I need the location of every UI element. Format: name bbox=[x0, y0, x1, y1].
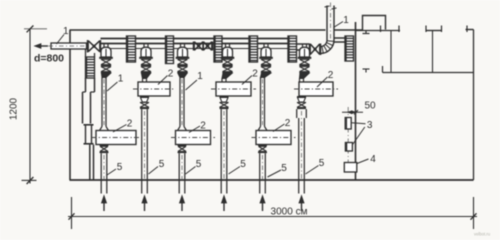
flexible insert riser 5 bbox=[261, 59, 271, 73]
outlet cone unit 6 bbox=[297, 96, 306, 109]
chamber roof line bbox=[70, 29, 363, 31]
roof notch (raised parapet) bbox=[363, 16, 386, 31]
drop grille 4 bbox=[249, 36, 258, 62]
label 1 stack bbox=[343, 15, 349, 26]
svg-text:2: 2 bbox=[285, 118, 291, 129]
funnel riser 4 bbox=[222, 73, 232, 82]
watermark bbox=[474, 232, 491, 237]
svg-text:5: 5 bbox=[159, 159, 165, 170]
dim 3000 line bbox=[68, 213, 477, 219]
leader label 4 bbox=[357, 159, 369, 164]
svg-text:2: 2 bbox=[200, 121, 206, 132]
dim text 3000 cm bbox=[271, 207, 308, 218]
fan unit 5 bbox=[252, 131, 296, 145]
svg-text:2: 2 bbox=[328, 70, 334, 81]
column line 1 bbox=[390, 31, 392, 73]
flexible insert riser 4 bbox=[222, 59, 232, 73]
svg-text:5: 5 bbox=[281, 163, 287, 174]
funnel riser 1 bbox=[102, 73, 111, 77]
label 1 riser 3 bbox=[197, 71, 203, 82]
svg-text:2: 2 bbox=[252, 69, 258, 80]
wall duct outlet stub bbox=[84, 124, 94, 145]
label d=800 bbox=[34, 53, 64, 65]
deflector dome riser 3 bbox=[176, 44, 190, 59]
riser pipe 3 lower bbox=[179, 153, 185, 193]
label 5 riser 2 bbox=[159, 159, 165, 170]
wall drop duct hatched section bbox=[86, 49, 95, 78]
outlet flange unit 3 bbox=[178, 145, 187, 154]
flexible insert riser 2 bbox=[141, 59, 151, 73]
dim 3000 extension left bbox=[71, 197, 73, 229]
label 2 unit4 bbox=[252, 69, 258, 80]
fan unit 6 bbox=[294, 82, 338, 96]
dim 1200 line bbox=[22, 26, 48, 185]
supply arrow riser 1 bbox=[101, 196, 106, 212]
label 2 unit1 bbox=[127, 119, 133, 130]
label 2 unit6 bbox=[328, 70, 334, 81]
svg-text:4: 4 bbox=[370, 154, 376, 165]
label 5 riser 1 bbox=[117, 162, 123, 173]
svg-text:3000 см: 3000 см bbox=[271, 207, 308, 218]
beam mark 2 on roof bbox=[426, 26, 442, 33]
leader label 5 riser 2 bbox=[149, 167, 159, 175]
inlet flow arrow bbox=[35, 44, 49, 49]
hatched elbow bend bbox=[321, 40, 335, 54]
inlet gate valve bbox=[88, 40, 101, 53]
funnel riser 2 bbox=[142, 73, 151, 82]
funnel riser 3 bbox=[178, 73, 187, 77]
wall duct lower column to floor bbox=[90, 145, 94, 180]
funnel riser 5 bbox=[261, 73, 271, 77]
riser pipe 5 lower bbox=[260, 153, 266, 193]
svg-text:50: 50 bbox=[364, 101, 376, 112]
inlet cone unit 5 bbox=[258, 127, 267, 131]
axis line fixtures bbox=[347, 107, 349, 163]
label 5 riser 4 bbox=[240, 159, 246, 170]
column tick under notch bbox=[363, 31, 370, 34]
riser pipe 1 upper bbox=[102, 78, 106, 127]
riser pipe 3 upper bbox=[180, 78, 184, 127]
wall drop duct lower section bbox=[83, 78, 95, 124]
beam mark 1 on roof bbox=[381, 26, 400, 33]
drop grille 2 bbox=[166, 36, 174, 64]
label 1 riser 1 bbox=[118, 74, 124, 85]
mid double gate valve bbox=[194, 42, 213, 51]
svg-text:3: 3 bbox=[367, 120, 373, 131]
outlet cone unit 4 bbox=[220, 96, 229, 109]
svg-text:5: 5 bbox=[319, 158, 325, 169]
label 2 unit5 bbox=[285, 118, 291, 129]
svg-text:5: 5 bbox=[196, 159, 202, 170]
leader to label 1 (riser 1) bbox=[107, 82, 118, 91]
label 2 unit3 bbox=[200, 121, 206, 132]
chamber outline left wall bbox=[69, 30, 71, 180]
svg-text:1: 1 bbox=[343, 15, 349, 26]
deflector dome riser 6 bbox=[298, 44, 312, 59]
leader label 2 unit2 bbox=[158, 76, 168, 85]
fan unit 2 bbox=[133, 82, 175, 96]
supply arrow riser 4 bbox=[221, 196, 226, 212]
dim 3000 extension right bbox=[473, 197, 475, 229]
deflector dome riser 4 bbox=[221, 44, 235, 59]
deflector dome riser 2 bbox=[139, 44, 153, 59]
svg-text:2: 2 bbox=[127, 119, 133, 130]
end drop grille at partition bbox=[345, 36, 354, 61]
svg-text:5: 5 bbox=[240, 159, 246, 170]
supply arrow riser 3 bbox=[179, 196, 184, 212]
riser pipe 1 lower bbox=[101, 153, 107, 193]
label 5 riser 6 bbox=[319, 158, 325, 169]
svg-text:5: 5 bbox=[117, 162, 123, 173]
leader label 2 unit4 bbox=[242, 76, 252, 85]
supply arrow riser 2 bbox=[142, 196, 147, 212]
label 1 inlet bbox=[63, 26, 69, 37]
dim text 50 bbox=[364, 101, 376, 112]
svg-text:1200: 1200 bbox=[9, 97, 20, 120]
leader label 2 unit6 bbox=[317, 77, 328, 87]
riser pipe 6 lower bbox=[297, 109, 307, 193]
header duct lower flange line bbox=[101, 48, 296, 50]
fan unit 4 bbox=[211, 82, 256, 96]
supply arrow riser 6 bbox=[299, 196, 304, 212]
svg-text:1: 1 bbox=[63, 26, 69, 37]
flexible insert riser 6 bbox=[299, 59, 309, 73]
leader label 5 riser 1 bbox=[107, 169, 116, 175]
drop grille 5 bbox=[288, 36, 297, 62]
dim 50 line bbox=[342, 110, 363, 114]
corridor inner wall line bbox=[383, 66, 474, 73]
svg-text:d=800: d=800 bbox=[34, 53, 64, 65]
funnel riser 6 bbox=[300, 73, 310, 82]
fixture 3 lower bbox=[345, 143, 352, 152]
leader label 2 unit3 bbox=[189, 126, 200, 133]
header duct end run (lower level) bbox=[296, 44, 310, 50]
label 4 bbox=[370, 154, 376, 165]
corner tick right bbox=[466, 26, 474, 33]
leader to label 1 (riser 3) bbox=[186, 80, 198, 90]
riser pipe 5 upper bbox=[261, 78, 265, 127]
exhaust stack bbox=[325, 3, 337, 42]
inlet cone unit 3 bbox=[178, 127, 187, 131]
svg-text:velbot.ru: velbot.ru bbox=[474, 232, 491, 237]
label 2 unit2 bbox=[168, 69, 174, 80]
column line 2 bbox=[432, 31, 434, 73]
label 3 bbox=[367, 120, 373, 131]
outlet gate valve bbox=[310, 44, 321, 56]
fixture 3 upper bbox=[345, 118, 351, 130]
floor line bbox=[70, 179, 474, 181]
fixture 4 bbox=[344, 163, 357, 173]
inlet duct d=800 bbox=[49, 43, 89, 49]
leader to label 1 (inlet duct) bbox=[57, 35, 65, 45]
outlet flange unit 5 bbox=[258, 145, 267, 154]
leader label 2 unit1 bbox=[113, 125, 127, 133]
label 5 riser 5 bbox=[281, 163, 287, 174]
flexible insert riser 3 bbox=[177, 59, 187, 73]
drop grille 3 bbox=[214, 36, 222, 62]
deflector dome riser 1 bbox=[99, 44, 113, 59]
outlet flange unit 1 bbox=[100, 145, 109, 154]
header duct upper run bbox=[101, 39, 297, 44]
leader label 5 riser 4 bbox=[229, 167, 241, 175]
leader label 2 unit5 bbox=[273, 124, 285, 132]
duct stub to end grille bbox=[334, 38, 354, 42]
lower column tick bbox=[363, 69, 370, 73]
right outer wall bbox=[473, 30, 475, 181]
svg-text:2: 2 bbox=[168, 69, 174, 80]
supply arrow riser 5 bbox=[260, 196, 265, 212]
leader label 5 riser 5 bbox=[268, 170, 282, 177]
roof bar at partition top bbox=[355, 30, 400, 32]
leader label 5 riser 6 bbox=[306, 166, 319, 175]
svg-text:1: 1 bbox=[197, 71, 203, 82]
riser pipe 4 lower bbox=[221, 109, 227, 193]
inlet cone unit 1 bbox=[100, 127, 109, 131]
label 5 riser 3 bbox=[196, 159, 202, 170]
riser pipe 2 lower bbox=[142, 109, 148, 193]
svg-text:1: 1 bbox=[118, 74, 124, 85]
outlet cone unit 2 bbox=[140, 96, 149, 109]
leader to label 1 (stack) bbox=[334, 22, 344, 28]
partition wall between chamber and corridor bbox=[355, 22, 357, 180]
drop grille 1 bbox=[127, 36, 136, 62]
flexible insert riser 1 bbox=[101, 59, 111, 73]
dim text 1200 bbox=[9, 97, 20, 120]
fan unit 1 bbox=[92, 131, 141, 145]
leaders label 3 bbox=[352, 123, 366, 145]
leader label 5 riser 3 bbox=[186, 167, 196, 175]
deflector dome riser 5 bbox=[259, 44, 273, 59]
fan unit 3 bbox=[171, 131, 215, 145]
